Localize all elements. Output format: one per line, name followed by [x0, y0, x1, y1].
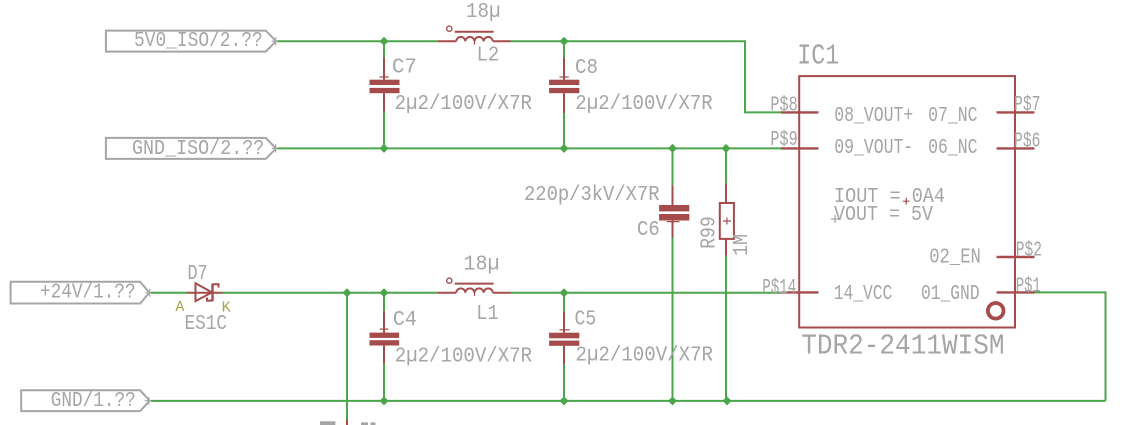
svg-text:P$2: P$2	[1016, 239, 1042, 263]
junction (384,400)	[380, 396, 389, 405]
svg-text:2µ2/100V/X7R: 2µ2/100V/X7R	[575, 92, 712, 116]
capacitor C4	[370, 308, 533, 368]
svg-text:GND_ISO/2.??: GND_ISO/2.??	[132, 137, 264, 161]
svg-text:P$9: P$9	[770, 128, 797, 152]
pin P$8 stub	[781, 111, 819, 113]
capacitor C7	[370, 56, 533, 116]
junction (727,400)	[723, 396, 732, 405]
wire net 5V0_ISO top row	[277, 41, 781, 112]
junction (564,400)	[560, 396, 569, 405]
wire C8 column	[563, 41, 565, 148]
inductor L2	[438, 0, 511, 68]
svg-text:18µ: 18µ	[464, 253, 500, 277]
svg-text:09_VOUT-: 09_VOUT-	[834, 136, 913, 160]
junction (564,41)	[560, 37, 569, 46]
svg-text:2µ2/100V/X7R: 2µ2/100V/X7R	[395, 344, 532, 368]
cut-off component lead below at x347	[346, 420, 348, 425]
svg-text:1M: 1M	[730, 234, 754, 256]
wire R99 column	[725, 148, 727, 401]
svg-text:D7: D7	[188, 262, 208, 286]
svg-text:08_VOUT+: 08_VOUT+	[834, 104, 913, 128]
pin P$1 stub	[997, 291, 1035, 293]
junction (384,148)	[380, 144, 389, 153]
inductor L1	[438, 253, 511, 327]
wire C5 column	[563, 293, 565, 401]
net flag +24V/1.??	[11, 281, 154, 305]
svg-text:220p/3kV/X7R: 220p/3kV/X7R	[524, 183, 660, 207]
IC polarity circle	[988, 303, 1004, 319]
svg-text:IC1: IC1	[797, 40, 839, 73]
net flag GND/1.??	[21, 389, 153, 413]
junction (384,293)	[380, 288, 389, 297]
junction (726,148)	[722, 144, 731, 153]
svg-text:L1: L1	[476, 302, 499, 326]
wire stub down from +24V at x347	[346, 293, 348, 420]
svg-text:P$14: P$14	[762, 276, 796, 300]
resistor R99	[698, 184, 755, 256]
junction (672.5,400)	[668, 396, 677, 405]
wire P$1 to GND	[1031, 292, 1106, 401]
wire net +24V row	[151, 292, 781, 294]
pin P$14 stub	[781, 291, 819, 293]
junction (384,41)	[380, 37, 389, 46]
cut-off gray text tops bottom edge	[320, 421, 335, 425]
svg-text:18µ: 18µ	[466, 0, 501, 24]
svg-text:GND/1.??: GND/1.??	[51, 389, 136, 413]
svg-text:A: A	[175, 299, 184, 316]
IC attribute cross gray	[831, 215, 839, 223]
wire C6 column	[672, 148, 674, 401]
svg-text:TDR2-2411WISM: TDR2-2411WISM	[801, 330, 1004, 363]
svg-text:01_GND: 01_GND	[921, 282, 980, 306]
junction (564,293)	[560, 288, 569, 297]
svg-text:02_EN: 02_EN	[929, 245, 981, 269]
svg-text:C7: C7	[392, 56, 417, 80]
net flag GND_ISO/2.??	[106, 137, 280, 161]
net flag 5V0_ISO/2.??	[106, 29, 280, 53]
wire net GND_ISO row	[277, 147, 781, 149]
IC attribute cross red	[903, 198, 910, 205]
junction (347,293)	[343, 288, 352, 297]
svg-text:07_NC: 07_NC	[928, 104, 977, 128]
svg-text:06_NC: 06_NC	[928, 136, 977, 160]
diode D7	[175, 262, 230, 336]
svg-text:C6: C6	[637, 218, 660, 242]
svg-text:5V0_ISO/2.??: 5V0_ISO/2.??	[134, 29, 263, 53]
junction (564,148)	[560, 144, 569, 153]
svg-text:+24V/1.??: +24V/1.??	[40, 281, 136, 305]
svg-text:14_VCC: 14_VCC	[834, 282, 893, 306]
svg-text:P$7: P$7	[1014, 93, 1041, 117]
svg-text:P$1: P$1	[1016, 275, 1041, 299]
svg-text:P$6: P$6	[1014, 130, 1041, 154]
pin P$2 stub	[997, 256, 1035, 258]
pin P$7 stub	[997, 111, 1035, 113]
pin P$6 stub	[997, 147, 1035, 149]
svg-text:VOUT = 5V: VOUT = 5V	[834, 203, 933, 227]
svg-text:P$8: P$8	[770, 93, 797, 117]
capacitor C8	[549, 56, 713, 116]
svg-text:C8: C8	[575, 56, 598, 80]
svg-text:C4: C4	[393, 308, 417, 332]
wire net GND bottom row	[151, 400, 1106, 402]
capacitor C5	[549, 308, 713, 368]
IC U1 box	[799, 76, 1015, 327]
wire C4 column	[383, 293, 385, 401]
svg-text:ES1C: ES1C	[185, 312, 228, 336]
wire C7 column	[383, 41, 385, 148]
svg-text:L2: L2	[477, 44, 500, 68]
svg-text:C5: C5	[575, 308, 597, 332]
junction (672.5,148)	[668, 144, 677, 153]
svg-text:2µ2/100V/X7R: 2µ2/100V/X7R	[395, 92, 532, 116]
pin P$9 stub	[781, 147, 819, 149]
svg-text:R99: R99	[698, 216, 722, 249]
svg-text:2µ2/100V/X7R: 2µ2/100V/X7R	[576, 344, 714, 368]
capacitor C6	[524, 183, 689, 242]
